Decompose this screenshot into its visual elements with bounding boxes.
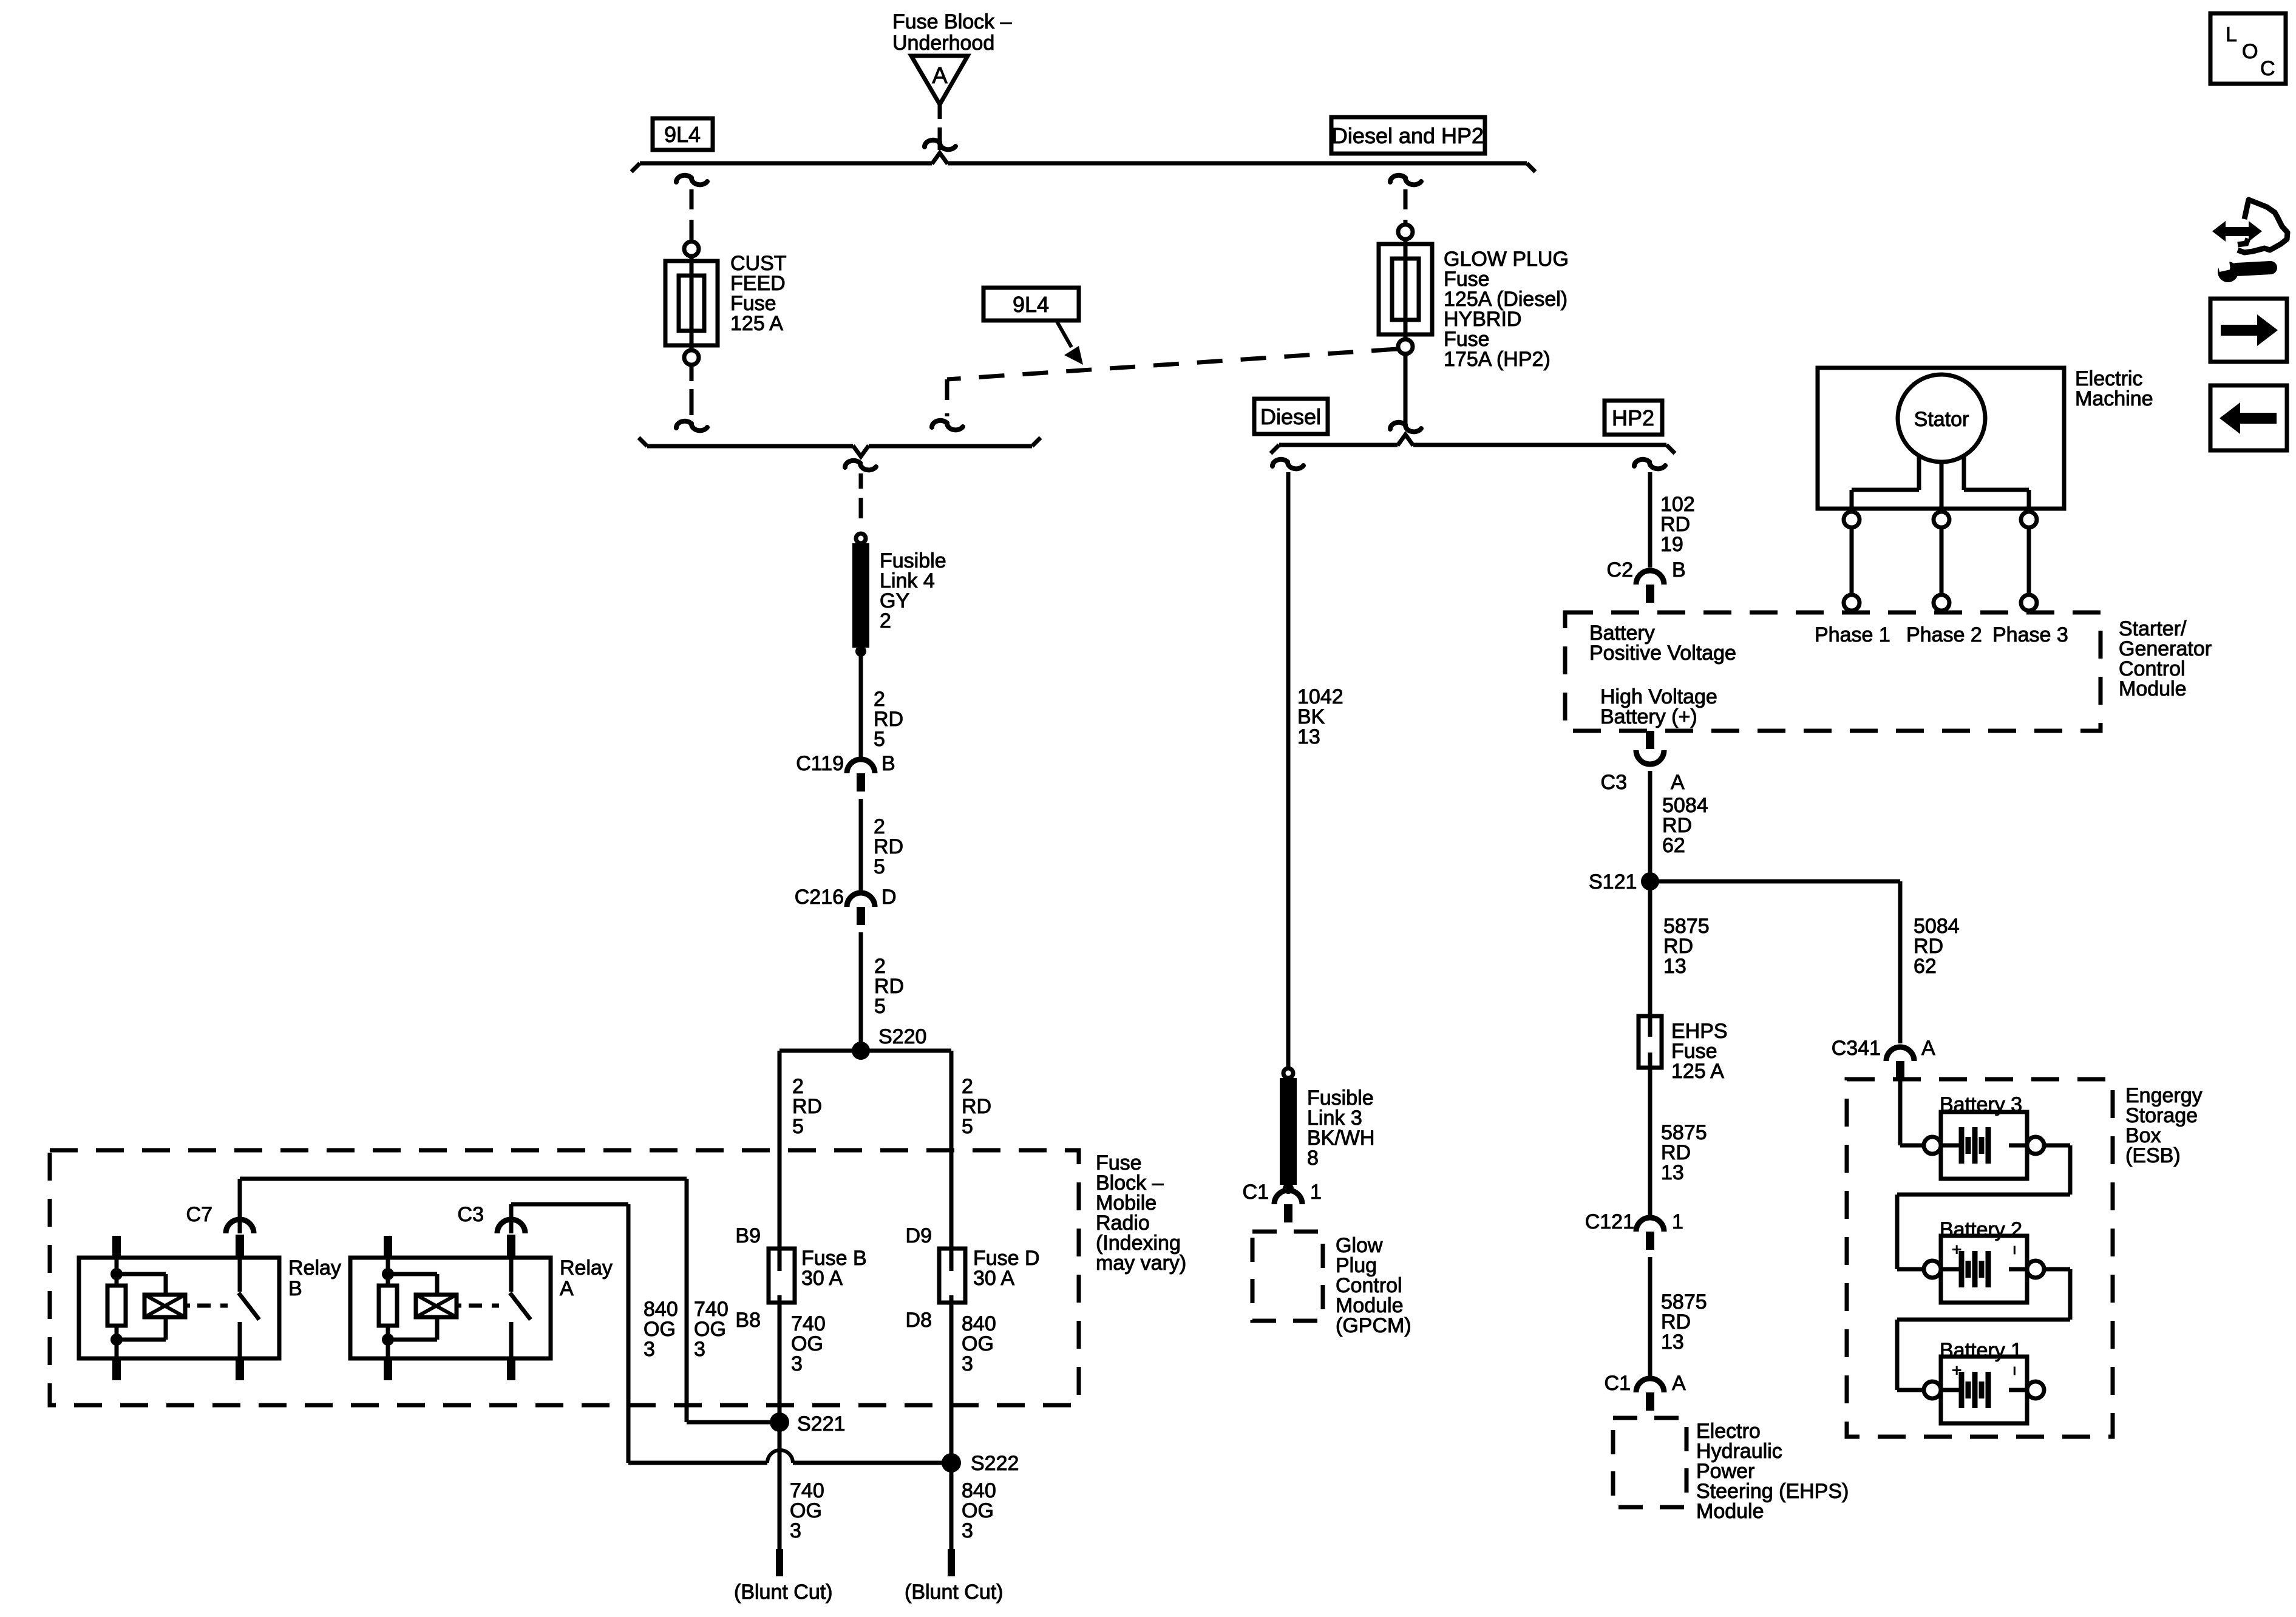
svg-text:A: A: [1672, 1372, 1686, 1395]
svg-text:+: +: [1952, 1361, 1961, 1380]
svg-text:A: A: [1921, 1037, 1935, 1060]
svg-text:13: 13: [1661, 1161, 1684, 1184]
svg-text:Relay: Relay: [288, 1256, 341, 1280]
svg-text:175A (HP2): 175A (HP2): [1444, 348, 1550, 371]
svg-text:3: 3: [791, 1352, 803, 1375]
svg-text:D: D: [881, 886, 897, 909]
svg-text:C: C: [2260, 57, 2275, 80]
svg-text:C3: C3: [458, 1203, 484, 1226]
svg-text:Phase 1: Phase 1: [1815, 623, 1890, 646]
svg-text:3: 3: [962, 1352, 973, 1375]
svg-text:C7: C7: [186, 1203, 212, 1226]
svg-text:5: 5: [874, 728, 885, 751]
svg-text:1: 1: [1310, 1181, 1322, 1204]
svg-text:B: B: [1672, 558, 1686, 581]
svg-text:30 A: 30 A: [973, 1267, 1014, 1290]
svg-text:Battery (+): Battery (+): [1600, 705, 1697, 728]
svg-text:Module: Module: [1696, 1500, 1764, 1523]
svg-text:B8: B8: [735, 1309, 761, 1332]
svg-text:3: 3: [962, 1519, 973, 1542]
svg-text:5: 5: [874, 855, 885, 878]
svg-text:Underhood: Underhood: [892, 32, 994, 55]
svg-text:L: L: [2226, 23, 2237, 46]
svg-text:125 A: 125 A: [730, 312, 783, 335]
svg-text:5: 5: [792, 1115, 804, 1138]
svg-text:Relay: Relay: [560, 1256, 613, 1280]
svg-text:B: B: [881, 752, 895, 775]
svg-text:S220: S220: [878, 1025, 926, 1048]
svg-text:Phase 3: Phase 3: [1992, 623, 2068, 646]
svg-text:Fuse Block –: Fuse Block –: [892, 10, 1012, 33]
svg-text:A: A: [1671, 771, 1685, 794]
svg-text:O: O: [2242, 40, 2258, 63]
svg-text:9L4: 9L4: [1013, 292, 1049, 317]
svg-text:30 A: 30 A: [801, 1267, 843, 1290]
svg-text:3: 3: [644, 1338, 655, 1361]
svg-text:D8: D8: [906, 1309, 932, 1332]
svg-text:C1: C1: [1243, 1181, 1269, 1204]
svg-text:13: 13: [1663, 955, 1686, 978]
svg-text:Machine: Machine: [2075, 387, 2153, 410]
svg-text:13: 13: [1661, 1331, 1684, 1354]
svg-text:ı: ı: [2012, 1241, 2017, 1258]
svg-text:Phase 2: Phase 2: [1906, 623, 1982, 646]
svg-text:62: 62: [1914, 955, 1937, 978]
svg-text:HP2: HP2: [1612, 405, 1654, 430]
svg-text:S221: S221: [797, 1412, 845, 1436]
svg-text:Diesel: Diesel: [1260, 404, 1321, 429]
svg-text:ı: ı: [2012, 1362, 2017, 1378]
svg-text:C2: C2: [1607, 558, 1633, 581]
svg-text:Stator: Stator: [1914, 408, 1969, 431]
svg-text:(GPCM): (GPCM): [1336, 1314, 1411, 1337]
svg-text:C1: C1: [1605, 1372, 1631, 1395]
svg-text:(ESB): (ESB): [2125, 1144, 2181, 1167]
svg-text:(Blunt Cut): (Blunt Cut): [734, 1581, 833, 1604]
svg-text:C121: C121: [1585, 1210, 1634, 1233]
svg-text:A: A: [560, 1277, 574, 1300]
svg-text:C119: C119: [796, 752, 844, 775]
svg-text:125 A: 125 A: [1671, 1060, 1724, 1083]
svg-text:may vary): may vary): [1096, 1252, 1186, 1275]
svg-text:C3: C3: [1601, 771, 1627, 794]
svg-text:A: A: [932, 63, 948, 89]
svg-text:1: 1: [1672, 1210, 1683, 1233]
svg-text:B9: B9: [735, 1224, 761, 1247]
svg-text:D9: D9: [906, 1224, 932, 1247]
svg-text:(Blunt Cut): (Blunt Cut): [905, 1581, 1004, 1604]
svg-text:8: 8: [1307, 1147, 1319, 1170]
svg-text:9L4: 9L4: [664, 122, 701, 147]
svg-text:S121: S121: [1589, 870, 1637, 893]
svg-text:C216: C216: [795, 886, 844, 909]
svg-text:+: +: [1952, 1240, 1961, 1259]
svg-text:Positive Voltage: Positive Voltage: [1589, 642, 1736, 665]
svg-text:3: 3: [694, 1338, 705, 1361]
svg-text:Diesel and HP2: Diesel and HP2: [1332, 123, 1484, 148]
svg-text:2: 2: [880, 609, 891, 632]
svg-text:Module: Module: [2119, 677, 2187, 700]
svg-text:B: B: [288, 1277, 302, 1300]
svg-text:C341: C341: [1832, 1037, 1881, 1060]
svg-text:62: 62: [1662, 834, 1685, 857]
svg-text:5: 5: [874, 995, 886, 1018]
svg-text:3: 3: [790, 1519, 801, 1542]
svg-text:19: 19: [1660, 533, 1683, 556]
svg-text:S222: S222: [971, 1452, 1019, 1475]
svg-text:5: 5: [962, 1115, 973, 1138]
svg-text:13: 13: [1297, 725, 1320, 748]
